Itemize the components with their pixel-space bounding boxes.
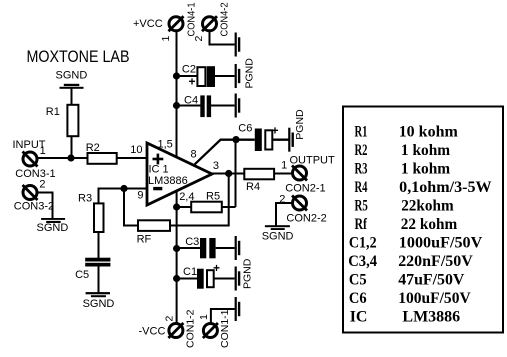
svg-text:C6: C6 xyxy=(349,290,367,307)
svg-text:R3: R3 xyxy=(78,193,92,205)
svg-text:10 kohm: 10 kohm xyxy=(399,123,459,140)
svg-text:Rf: Rf xyxy=(355,216,368,233)
svg-text:+: + xyxy=(189,75,196,89)
svg-text:9: 9 xyxy=(137,190,143,202)
svg-text:+: + xyxy=(213,261,220,275)
svg-text:CON4-2: CON4-2 xyxy=(219,2,231,36)
svg-text:CON1-1: CON1-1 xyxy=(219,309,231,348)
svg-text:IC: IC xyxy=(350,308,368,325)
svg-text:SGND: SGND xyxy=(56,70,88,82)
svg-text:RF: RF xyxy=(137,234,152,246)
svg-text:R1: R1 xyxy=(46,106,60,118)
svg-text:CON3-1: CON3-1 xyxy=(15,168,55,180)
svg-text:+VCC: +VCC xyxy=(133,18,163,30)
svg-text:2: 2 xyxy=(279,194,285,206)
svg-text:3: 3 xyxy=(213,160,219,172)
svg-text:R3: R3 xyxy=(355,160,368,177)
svg-text:8: 8 xyxy=(191,148,197,160)
svg-text:22 kohm: 22 kohm xyxy=(401,216,458,233)
svg-text:2: 2 xyxy=(193,36,205,42)
svg-text:LM3886: LM3886 xyxy=(402,308,460,325)
svg-text:MOXTONE LAB: MOXTONE LAB xyxy=(27,47,130,66)
svg-text:1000uF/50V: 1000uF/50V xyxy=(399,234,483,251)
svg-text:C1,2: C1,2 xyxy=(349,234,377,251)
svg-text:C3,4: C3,4 xyxy=(348,253,377,270)
svg-text:2,4: 2,4 xyxy=(179,191,194,203)
svg-text:1 kohm: 1 kohm xyxy=(401,160,451,177)
svg-text:C1: C1 xyxy=(183,266,197,278)
svg-text:SGND: SGND xyxy=(83,298,115,310)
svg-text:C4: C4 xyxy=(184,95,198,107)
svg-text:OUTPUT: OUTPUT xyxy=(290,155,336,167)
svg-text:PGND: PGND xyxy=(241,258,253,289)
svg-text:CON2-1: CON2-1 xyxy=(285,183,325,195)
svg-text:47uF/50V: 47uF/50V xyxy=(398,271,465,288)
svg-text:10: 10 xyxy=(130,144,142,156)
svg-text:SGND: SGND xyxy=(262,231,294,243)
svg-text:R4: R4 xyxy=(246,181,260,193)
svg-text:PGND: PGND xyxy=(244,58,256,89)
svg-text:IC 1: IC 1 xyxy=(149,164,169,176)
svg-text:CON1-2: CON1-2 xyxy=(184,309,196,348)
svg-text:2: 2 xyxy=(164,316,176,322)
svg-text:R2: R2 xyxy=(86,142,100,154)
svg-text:220nF/50V: 220nF/50V xyxy=(398,253,473,270)
svg-text:R2: R2 xyxy=(355,142,368,159)
svg-text:CON3-2: CON3-2 xyxy=(14,201,54,213)
svg-text:C5: C5 xyxy=(75,269,89,281)
svg-text:1: 1 xyxy=(198,314,210,320)
svg-text:C5: C5 xyxy=(349,271,367,288)
svg-text:1: 1 xyxy=(40,145,46,157)
svg-text:CON2-2: CON2-2 xyxy=(286,212,326,224)
svg-text:1 kohm: 1 kohm xyxy=(401,142,451,159)
svg-text:R1: R1 xyxy=(355,123,368,140)
svg-text:22kohm: 22kohm xyxy=(401,197,454,214)
svg-text:100uF/50V: 100uF/50V xyxy=(398,290,471,307)
svg-text:2: 2 xyxy=(39,178,45,190)
svg-text:PGND: PGND xyxy=(294,109,306,140)
svg-text:R5: R5 xyxy=(206,191,220,203)
svg-text:SGND: SGND xyxy=(37,222,69,234)
svg-text:R4: R4 xyxy=(355,179,368,196)
svg-text:1: 1 xyxy=(160,36,172,42)
svg-text:-VCC: -VCC xyxy=(139,325,166,337)
svg-text:CON4-1: CON4-1 xyxy=(185,2,197,36)
svg-text:1,5: 1,5 xyxy=(158,139,173,151)
svg-text:R5: R5 xyxy=(355,197,368,214)
svg-text:C3: C3 xyxy=(185,236,199,248)
svg-text:LM3886: LM3886 xyxy=(148,175,188,187)
svg-text:+: + xyxy=(272,124,279,138)
svg-text:1: 1 xyxy=(281,160,287,172)
svg-text:0,1ohm/3-5W: 0,1ohm/3-5W xyxy=(399,179,491,196)
svg-text:C6: C6 xyxy=(238,122,252,134)
